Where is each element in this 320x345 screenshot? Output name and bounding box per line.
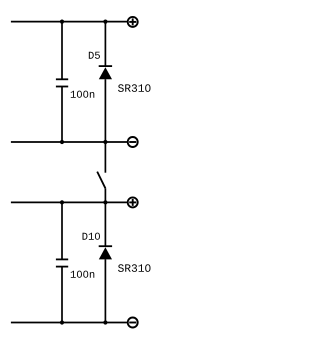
wire W8 switch bottom lead: [104, 188, 106, 202]
wire W14 bottom negative rail: [11, 322, 127, 324]
wire W1 top positive rail: [11, 21, 127, 23]
wire W7 switch top lead: [104, 142, 106, 173]
junction node N6 (D10 cathode / switch bottom): [103, 200, 107, 204]
reference label D5: [89, 52, 100, 59]
wire W4 D5 cathode lead: [104, 22, 106, 67]
value label 100n (C1): [71, 91, 95, 98]
value label SR310 (D5): [118, 84, 150, 92]
wire W9 second positive rail: [11, 201, 127, 203]
junction node N7 (C2 bottom): [60, 320, 64, 324]
value label SR310 (D10): [118, 264, 150, 272]
terminal T4 negative output 2: [128, 318, 138, 328]
diode D5: [99, 66, 112, 79]
terminal T3 positive output 2: [128, 197, 138, 207]
switch SW1 blade (open): [97, 172, 105, 189]
junction node N2 (D5 cathode): [103, 20, 107, 24]
terminal T2 negative output: [128, 137, 138, 147]
wire W2 C1 top lead: [61, 22, 63, 80]
junction node N5 (C2 top): [60, 200, 64, 204]
wire W12 D10 cathode lead: [104, 202, 106, 246]
wire W6 middle negative rail: [11, 141, 127, 143]
capacitor C2: [56, 259, 68, 266]
wire W11 C2 bottom lead: [61, 267, 63, 323]
reference label D10: [83, 233, 100, 240]
wire W13 D10 anode lead: [104, 259, 106, 322]
junction node N3 (C1 bottom): [60, 140, 64, 144]
junction node N1 (C1 top): [60, 20, 64, 24]
value label 100n (C2): [71, 271, 95, 278]
wire W5 D5 anode lead: [104, 79, 106, 142]
junction node N8 (D10 anode): [103, 320, 107, 324]
diode D10: [99, 246, 112, 259]
wire W3 C1 bottom lead: [61, 87, 63, 143]
wire W10 C2 top lead: [61, 202, 63, 259]
terminal T1 positive output: [128, 17, 138, 27]
junction node N4 (D5 anode / switch top): [103, 140, 107, 144]
capacitor C1: [56, 79, 68, 86]
